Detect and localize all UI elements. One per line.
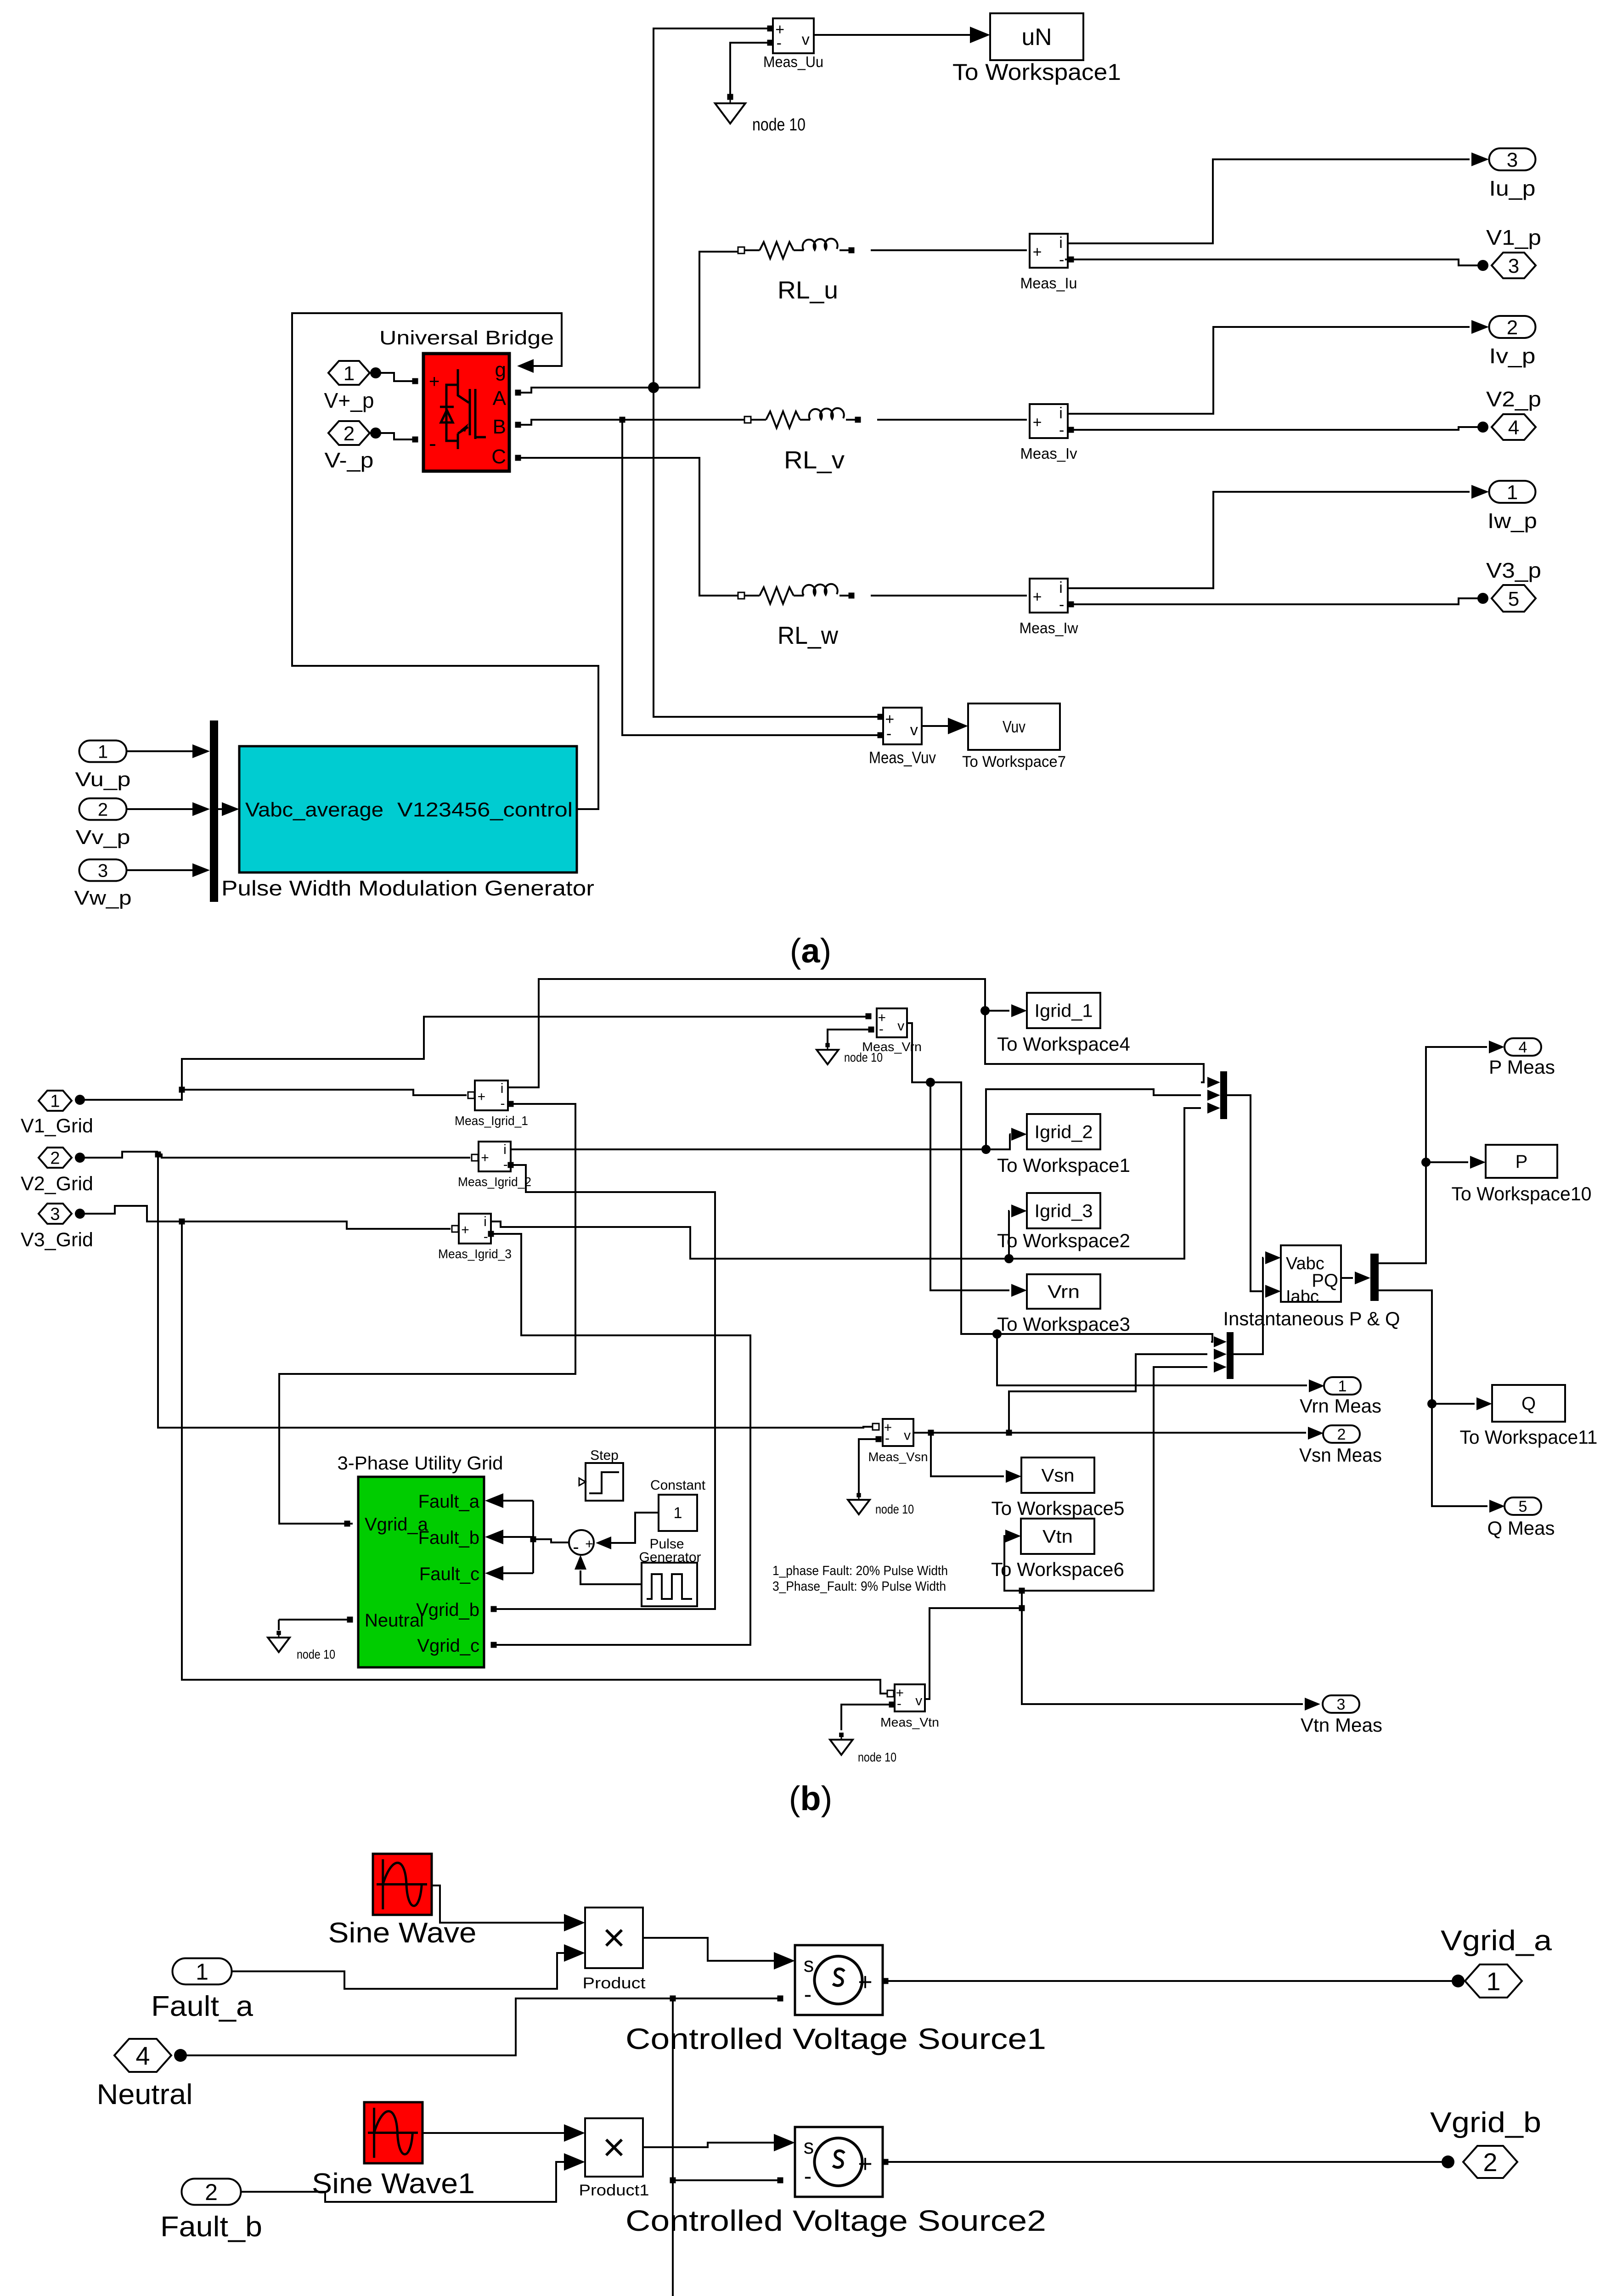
wire P to workspace box	[1426, 1161, 1468, 1163]
svg-text:Vu_p: Vu_p	[75, 768, 131, 791]
svg-text:Iw_p: Iw_p	[1487, 509, 1537, 533]
svg-text:V+_p: V+_p	[324, 388, 374, 412]
series RLC branch RL_v	[744, 408, 861, 428]
junction Neutral CVS2	[670, 2178, 676, 2183]
wire Q to workspace box	[1432, 1403, 1475, 1405]
svg-text:Vv_p: Vv_p	[76, 826, 130, 849]
port V3_p (5)	[1492, 585, 1536, 612]
wire to V1_p	[1074, 259, 1483, 265]
svg-text:node 10: node 10	[858, 1750, 896, 1764]
output port Iw_p (1)	[1489, 481, 1536, 504]
svg-text:Vgrid_c: Vgrid_c	[417, 1636, 479, 1656]
svg-text:node 10: node 10	[875, 1502, 914, 1516]
controlled-voltage-source CVS1	[795, 1945, 883, 2015]
svg-text:P: P	[1516, 1152, 1528, 1172]
svg-text:To Workspace2: To Workspace2	[997, 1230, 1130, 1251]
wire Vgrid_a input	[350, 1523, 353, 1525]
svg-text:2: 2	[205, 2179, 218, 2205]
block Universal Bridge	[423, 354, 509, 471]
wire Q	[1379, 1290, 1487, 1506]
svg-text:4: 4	[1519, 1039, 1527, 1056]
svg-text:-: -	[885, 1430, 890, 1446]
subsystem 3-Phase Utility Grid	[358, 1477, 484, 1667]
svg-text:-: -	[1059, 422, 1064, 439]
voltage-measurement Meas_Vuv	[883, 708, 922, 744]
wire fault bus c	[503, 1572, 533, 1574]
svg-text:Meas_Igrid_2: Meas_Igrid_2	[458, 1175, 531, 1189]
wire Meas_Iu i to Iu_p	[1068, 159, 1470, 243]
wire Igrid_1 to workspace box	[985, 1010, 1009, 1012]
dot V1_p	[1477, 260, 1488, 271]
svg-text:+: +	[478, 1089, 486, 1104]
wire Product to CVS1	[643, 1938, 778, 1961]
to-workspace Igrid_2	[1027, 1114, 1100, 1149]
sum block	[569, 1530, 594, 1557]
svg-text:Iv_p: Iv_p	[1489, 344, 1536, 368]
wire Meas_Igrid_2 minus to Vgrid_b	[496, 1165, 715, 1609]
wire bridge C to RL_w	[515, 458, 738, 596]
wire mux to PWM block	[218, 808, 223, 810]
wire Meas_Uu minus to ground	[767, 40, 773, 46]
dot V2_Grid	[75, 1153, 85, 1163]
svg-text:Meas_Iu: Meas_Iu	[1020, 275, 1077, 292]
controlled-voltage-source CVS2	[795, 2127, 883, 2197]
output port Iu_p (3)	[1489, 148, 1536, 171]
wire Vsn to mux	[1009, 1354, 1207, 1433]
to-workspace Vsn	[1021, 1458, 1094, 1493]
svg-text:5: 5	[1519, 1498, 1527, 1515]
wire Vtn to workspace box	[1003, 1536, 1022, 1591]
dot port V-_p	[370, 428, 381, 439]
svg-text:uN: uN	[1022, 24, 1052, 51]
svg-text:Fault_b: Fault_b	[418, 1528, 479, 1548]
svg-text:3: 3	[1337, 1696, 1346, 1713]
input port Vv_p (2)	[79, 799, 127, 820]
wire Vabc to PQ block	[1234, 1258, 1263, 1354]
svg-text:RL_u: RL_u	[778, 276, 838, 304]
series RLC branch RL_u	[738, 239, 855, 259]
svg-text:Vgrid_b: Vgrid_b	[416, 1600, 479, 1620]
series RLC branch RL_w	[738, 584, 855, 604]
output port Vtn Meas (3)	[1323, 1695, 1359, 1713]
svg-text:2: 2	[1337, 1426, 1346, 1443]
svg-text:-: -	[1059, 251, 1064, 269]
current-measurement Meas_Iv	[1030, 404, 1068, 439]
mux Vabc-currents	[1207, 1071, 1227, 1119]
svg-text:-: -	[804, 1981, 812, 2007]
svg-text:Iu_p: Iu_p	[1489, 176, 1536, 200]
svg-text:Constant: Constant	[650, 1478, 706, 1493]
block Product1	[585, 2118, 643, 2177]
svg-text:Pulse Width Modulation Generat: Pulse Width Modulation Generator	[221, 876, 594, 900]
junction Vrn A	[926, 1078, 935, 1087]
wire Neutral bus vertical	[673, 1998, 808, 2296]
junction Vtn A	[1019, 1605, 1025, 1611]
demux PQ	[1370, 1254, 1379, 1301]
wire V+_p to bridge +	[376, 373, 412, 381]
wire Iabc to PQ block	[1227, 1095, 1263, 1291]
svg-text:(a): (a)	[790, 932, 831, 970]
wire Meas_Vsn minus to ground	[859, 1439, 879, 1493]
wire Neutral ground stub	[278, 1620, 280, 1630]
wire bridge A to RL_u	[515, 252, 738, 393]
port V2_Grid (2)	[39, 1148, 72, 1168]
input port Fault_b (2)	[182, 2179, 241, 2206]
junction Vsn A	[928, 1430, 934, 1436]
wire V2 to junction	[80, 1152, 158, 1158]
svg-text:1: 1	[344, 362, 355, 385]
svg-text:v: v	[915, 1694, 922, 1709]
svg-text:To Workspace10: To Workspace10	[1452, 1183, 1592, 1204]
wire Igrid_3 to workspace box	[1009, 1211, 1009, 1259]
current-measurement Meas_Igrid_3	[459, 1214, 491, 1244]
voltage-measurement Meas_Vrn	[877, 1008, 907, 1037]
svg-text:3: 3	[1508, 255, 1519, 277]
current-measurement Meas_Iu	[1030, 234, 1068, 269]
wire Meas_Uu v output to uN	[814, 34, 986, 36]
svg-text:1: 1	[674, 1504, 682, 1522]
svg-text:i: i	[484, 1214, 487, 1229]
wire Meas_Vuv v to Vuv	[922, 725, 951, 727]
wire Igrid_2 to mux	[986, 1089, 1201, 1149]
svg-text:2: 2	[98, 799, 108, 820]
svg-text:node 10: node 10	[844, 1050, 883, 1064]
svg-text:Vgrid_b: Vgrid_b	[1430, 2107, 1541, 2138]
svg-text:Vgrid_a: Vgrid_a	[1441, 1925, 1552, 1957]
svg-text:-: -	[804, 2163, 812, 2189]
svg-text:V2_p: V2_p	[1486, 387, 1541, 411]
svg-text:-: -	[500, 1096, 505, 1111]
wire Igrid_2 current	[511, 1134, 1010, 1149]
wire Meas_Vtn minus to ground	[841, 1705, 892, 1730]
svg-text:Controlled Voltage Source1: Controlled Voltage Source1	[625, 2022, 1046, 2055]
wire V3 to junction	[80, 1206, 182, 1221]
wire to V3_p	[1074, 598, 1483, 604]
wire bridge B to RL_v	[515, 420, 748, 425]
svg-text:i: i	[1059, 234, 1063, 252]
input port Fault_a (1)	[173, 1958, 232, 1985]
wire Product1 to CVS2	[643, 2143, 778, 2147]
svg-text:v: v	[904, 1428, 911, 1443]
svg-text:+: +	[858, 2150, 873, 2178]
dot V3_p	[1477, 593, 1488, 604]
ground node 10 (Meas_Vrn)	[817, 1043, 883, 1064]
output port Q Meas (5)	[1504, 1497, 1541, 1515]
junction fault bus	[530, 1536, 536, 1542]
svg-text:Fault_c: Fault_c	[419, 1564, 479, 1584]
svg-text:i: i	[503, 1142, 507, 1157]
svg-text:-: -	[503, 1157, 508, 1172]
svg-text:node 10: node 10	[297, 1647, 335, 1661]
wire Vrn to workspace box	[930, 1082, 1009, 1290]
dot Vgrid_a	[1452, 1975, 1465, 1987]
wire Sine Wave1 to Product1	[423, 2132, 568, 2134]
junction A-phase tap	[648, 382, 659, 393]
junction V2	[155, 1152, 161, 1158]
current-measurement Meas_Igrid_2	[479, 1142, 511, 1172]
wire Neutral input	[279, 1619, 347, 1621]
svg-text:4: 4	[135, 2041, 150, 2070]
voltage-measurement Meas_Vtn	[895, 1684, 925, 1711]
svg-text:node 10: node 10	[752, 115, 806, 135]
wire V1 to junction	[80, 1017, 866, 1100]
svg-text:Meas_Vsn: Meas_Vsn	[868, 1450, 928, 1464]
junction B-phase tap	[620, 417, 625, 423]
wire Sine Wave to Product	[432, 1885, 568, 1923]
output port Iv_p (2)	[1489, 316, 1536, 339]
svg-text:3: 3	[50, 1205, 60, 1224]
wire Neutral bus	[180, 1998, 778, 2055]
junction Igrid_3	[1004, 1254, 1014, 1263]
wire Vrn signal	[907, 1023, 1212, 1342]
wire sum to fault bus	[533, 1539, 569, 1542]
svg-text:1: 1	[1338, 1378, 1347, 1395]
output port Vrn Meas (1)	[1324, 1377, 1361, 1395]
svg-text:Product: Product	[583, 1975, 646, 1992]
svg-text:V1_p: V1_p	[1486, 225, 1541, 249]
wire Vrn to Vrn Meas port	[997, 1334, 1307, 1385]
svg-text:To Workspace1: To Workspace1	[952, 59, 1121, 85]
wire fault bus vertical	[532, 1501, 534, 1573]
wire Igrid_1 current	[508, 979, 1204, 1087]
junction Neutral CVS1	[670, 1996, 676, 2002]
wire gate feedback from PWM control	[292, 313, 598, 809]
wire P	[1379, 1047, 1487, 1263]
svg-text:To Workspace1: To Workspace1	[997, 1154, 1130, 1176]
svg-text:Universal Bridge: Universal Bridge	[379, 327, 554, 349]
svg-text:Fault_a: Fault_a	[151, 1991, 254, 2022]
port V1_Grid (1)	[39, 1091, 72, 1111]
wire to V2_p	[1074, 427, 1483, 430]
svg-text:Vw_p: Vw_p	[74, 887, 132, 909]
wire Fault_b to Product1	[241, 2162, 568, 2202]
wire PQ to demux	[1341, 1277, 1353, 1279]
wire Meas_Iw i to Iw_p	[1068, 492, 1470, 588]
dot V3_Grid	[75, 1209, 85, 1219]
svg-text:-: -	[879, 1021, 884, 1036]
svg-text:Neutral: Neutral	[365, 1610, 424, 1631]
svg-text:Meas_Iv: Meas_Iv	[1020, 445, 1077, 462]
svg-text:RL_v: RL_v	[784, 446, 845, 474]
junction V3	[179, 1219, 185, 1225]
svg-text:V1_Grid: V1_Grid	[21, 1115, 93, 1137]
to-workspace Vtn	[1021, 1519, 1094, 1554]
svg-text:Vabc_average: Vabc_average	[245, 799, 383, 821]
svg-text:1: 1	[1486, 1967, 1500, 1996]
wire V2 down to Meas_Vsn	[158, 1154, 872, 1428]
wire V1 branch to Meas_Igrid_1	[182, 1090, 467, 1095]
svg-text:To Workspace3: To Workspace3	[997, 1313, 1130, 1335]
svg-text:Vsn: Vsn	[1042, 1466, 1075, 1486]
svg-text:g: g	[495, 359, 506, 381]
svg-text:Fault_b: Fault_b	[160, 2211, 262, 2243]
ground node 10 (Meas_Vsn)	[848, 1493, 914, 1516]
svg-text:To Workspace11: To Workspace11	[1460, 1426, 1598, 1448]
svg-text:Instantaneous P & Q: Instantaneous P & Q	[1223, 1308, 1400, 1329]
wire V2 branch to Meas_Igrid_2	[158, 1154, 470, 1158]
svg-text:V2_Grid: V2_Grid	[21, 1173, 93, 1195]
wire Vtn signal	[925, 1608, 1022, 1699]
ground node 10 (Neutral)	[268, 1631, 335, 1661]
wire Vv_p to mux	[127, 808, 193, 810]
svg-text:3_Phase_Fault: 9% Pulse Width: 3_Phase_Fault: 9% Pulse Width	[772, 1579, 946, 1594]
block Step	[579, 1463, 623, 1501]
svg-text:Meas_Igrid_1: Meas_Igrid_1	[455, 1114, 528, 1128]
svg-text:+: +	[585, 1536, 593, 1552]
wire Vw_p to mux	[127, 869, 193, 871]
svg-text:1: 1	[98, 742, 108, 762]
svg-text:Igrid_3: Igrid_3	[1035, 1201, 1093, 1221]
svg-text:PQ: PQ	[1312, 1271, 1338, 1291]
port V3_Grid (3)	[39, 1204, 72, 1224]
wire Pulse Generator to sum	[580, 1570, 642, 1584]
svg-text:+: +	[1033, 414, 1042, 431]
svg-text:To Workspace7: To Workspace7	[962, 753, 1066, 771]
svg-text:+: +	[429, 371, 439, 392]
svg-text:s: s	[804, 1953, 814, 1976]
svg-text:To Workspace5: To Workspace5	[992, 1497, 1125, 1519]
wire Meas_Igrid_3 minus to Vgrid_c	[494, 1234, 750, 1645]
voltage-measurement Meas_Uu	[773, 18, 814, 53]
svg-text:1_phase Fault: 20% Pulse Width: 1_phase Fault: 20% Pulse Width	[772, 1564, 948, 1578]
svg-text:Neutral: Neutral	[97, 2079, 193, 2110]
svg-text:To Workspace4: To Workspace4	[997, 1033, 1130, 1055]
svg-text:Meas_Vtn: Meas_Vtn	[880, 1715, 939, 1729]
junction Vtn B	[1019, 1588, 1025, 1594]
junction Q	[1427, 1399, 1437, 1408]
svg-text:3: 3	[1507, 149, 1518, 171]
svg-text:i: i	[1059, 579, 1063, 597]
to-workspace Vrn	[1027, 1274, 1100, 1309]
svg-text:Product1: Product1	[579, 2182, 649, 2199]
svg-text:Q: Q	[1521, 1394, 1536, 1414]
svg-text:Vuv: Vuv	[1003, 717, 1025, 736]
svg-text:Controlled Voltage Source2: Controlled Voltage Source2	[625, 2204, 1046, 2237]
wire Meas_Vrn plus pin	[866, 1013, 872, 1019]
wire RL_w to Meas_Iw	[871, 595, 1027, 597]
svg-text:Meas_Uu: Meas_Uu	[763, 53, 823, 70]
svg-text:+: +	[1033, 243, 1042, 261]
port arrow Fault_b	[485, 1530, 503, 1544]
svg-text:2: 2	[344, 422, 355, 445]
input port Vu_p (1)	[79, 741, 127, 762]
svg-text:A: A	[493, 387, 507, 410]
wire Meas_Uu minus	[730, 43, 770, 94]
svg-text:-: -	[429, 432, 436, 456]
wire Meas_Igrid_1 minus to Vgrid_a	[279, 1104, 575, 1524]
wire Meas_Vrn minus to ground	[828, 1030, 874, 1043]
wire CVS1 to Vgrid_a	[888, 1980, 1458, 1982]
dot Neutral	[174, 2049, 187, 2062]
svg-text:v: v	[897, 1019, 904, 1034]
arrowhead into Vuv	[948, 718, 968, 734]
svg-text:-: -	[886, 725, 891, 743]
wire Vsn signal	[913, 1432, 1306, 1434]
wire CVS2 to Vgrid_b	[888, 2161, 1448, 2163]
svg-text:Meas_Igrid_3: Meas_Igrid_3	[438, 1247, 512, 1261]
to-workspace uN	[990, 13, 1083, 60]
svg-text:V-_p: V-_p	[325, 448, 374, 472]
port Vgrid_a (1)	[1465, 1964, 1522, 1998]
svg-text:3-Phase Utility Grid: 3-Phase Utility Grid	[338, 1452, 503, 1474]
wire B tap to Meas_Vuv minus	[622, 420, 878, 735]
svg-text:1: 1	[1507, 481, 1518, 504]
arrowhead into Iu_p	[1471, 152, 1489, 166]
junction P	[1421, 1158, 1431, 1167]
ground node 10 (Meas_Vtn)	[830, 1733, 896, 1764]
block Product	[585, 1908, 643, 1968]
wire V-_p to bridge -	[376, 433, 412, 439]
svg-text:Vrn: Vrn	[1048, 1282, 1080, 1302]
svg-text:i: i	[1059, 405, 1063, 422]
svg-text:C: C	[491, 445, 506, 468]
block Pulse Generator	[642, 1563, 697, 1606]
output port Vsn Meas (2)	[1323, 1425, 1360, 1443]
svg-text:B: B	[493, 416, 506, 438]
svg-text:Vrn Meas: Vrn Meas	[1300, 1395, 1381, 1417]
svg-text:v: v	[910, 721, 918, 739]
port arrow Fault_a	[485, 1493, 503, 1508]
wire Vtn to Vtn Meas port	[1022, 1608, 1303, 1704]
svg-text:2: 2	[1507, 316, 1518, 339]
svg-text:1: 1	[50, 1092, 60, 1111]
svg-text:+: +	[461, 1222, 469, 1238]
wire V3 branch to Meas_Igrid_3	[182, 1221, 451, 1229]
svg-text:2: 2	[1483, 2148, 1497, 2177]
svg-text:V3_Grid: V3_Grid	[21, 1229, 93, 1251]
wire uN sense (A-phase to Meas_Uu+ and Meas_Vuv+)	[654, 28, 878, 717]
wire Igrid_3 current	[491, 1221, 1009, 1259]
arrowhead into uN	[970, 27, 990, 43]
ground node 10 (Meas_Uu)	[715, 94, 806, 135]
wire V3 down to Meas_Vtn	[182, 1221, 888, 1694]
to-workspace Igrid_1	[1027, 993, 1100, 1028]
input port Vw_p (3)	[79, 860, 127, 881]
svg-text:1: 1	[196, 1959, 208, 1985]
svg-text:+: +	[481, 1150, 489, 1165]
arrowhead into Iv_p	[1471, 320, 1489, 334]
svg-text:s: s	[804, 2135, 814, 2158]
svg-text:Igrid_2: Igrid_2	[1035, 1122, 1093, 1142]
subsystem Pulse Width Modulation Generator	[239, 746, 577, 872]
svg-text:Meas_Iw: Meas_Iw	[1020, 619, 1078, 636]
port Vgrid_b (2)	[1463, 2146, 1517, 2178]
wire Vtn to mux	[1022, 1367, 1207, 1591]
svg-text:Vtn Meas: Vtn Meas	[1301, 1714, 1382, 1736]
svg-text:Sine Wave1: Sine Wave1	[312, 2168, 475, 2200]
arrowhead into Iw_p	[1471, 485, 1489, 499]
svg-text:Fault_a: Fault_a	[418, 1491, 480, 1512]
junction V1	[179, 1087, 185, 1093]
svg-text:Igrid_1: Igrid_1	[1035, 1001, 1093, 1021]
svg-text:+: +	[858, 1968, 873, 1996]
svg-text:To Workspace6: To Workspace6	[991, 1559, 1124, 1580]
to-workspace Q	[1492, 1385, 1565, 1422]
svg-text:3: 3	[98, 861, 108, 881]
port arrow Fault_c	[485, 1566, 503, 1581]
wire Constant to sum	[611, 1513, 659, 1543]
block Instantaneous P & Q	[1281, 1245, 1341, 1306]
wire Meas_Uu plus input from node A	[767, 26, 773, 32]
svg-text:i: i	[501, 1081, 504, 1096]
port V+_p (1)	[328, 361, 370, 385]
svg-text:(b): (b)	[789, 1779, 833, 1818]
mux Vabc-voltages	[1214, 1332, 1234, 1379]
port Neutral (4)	[114, 2039, 171, 2072]
svg-text:RL_w: RL_w	[778, 622, 839, 649]
wire Vtn up	[1021, 1591, 1023, 1608]
wire fault bus b	[503, 1536, 533, 1538]
